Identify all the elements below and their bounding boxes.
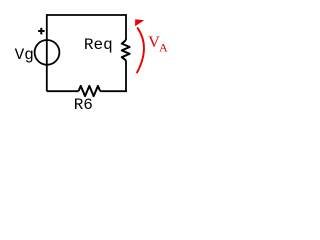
- svg-text:A: A: [159, 41, 168, 55]
- svg-text:R6: R6: [74, 96, 93, 114]
- svg-text:Vg: Vg: [15, 46, 34, 64]
- svg-text:Req: Req: [84, 36, 113, 54]
